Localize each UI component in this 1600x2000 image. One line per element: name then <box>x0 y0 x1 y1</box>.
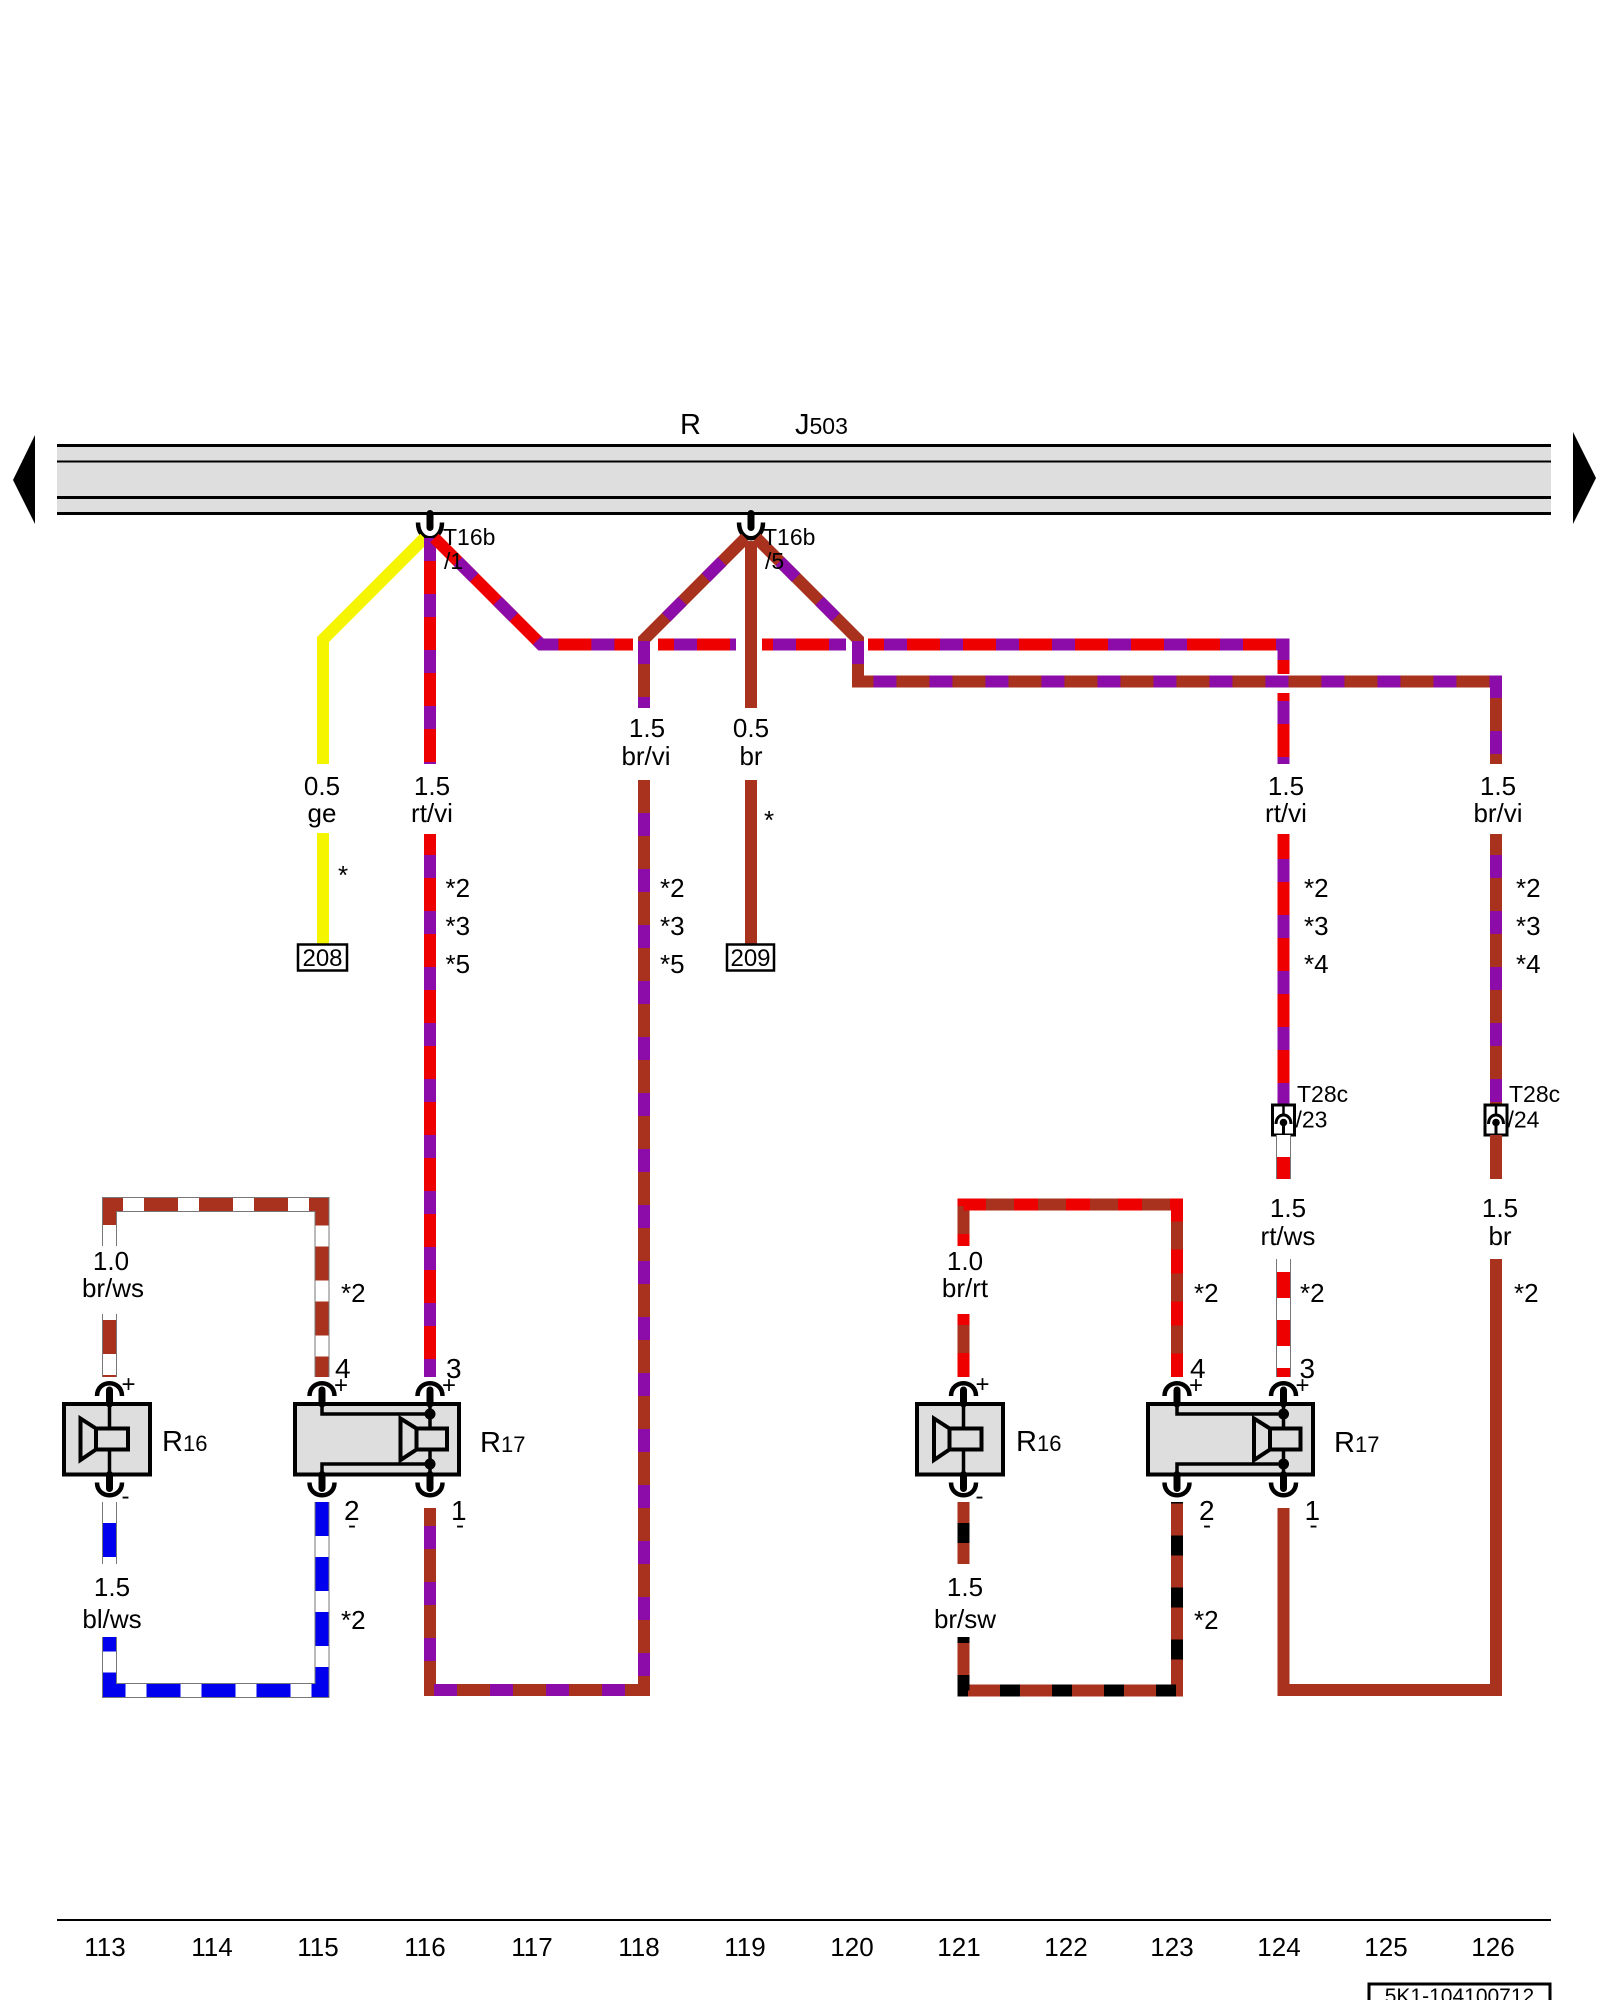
label T28c/24 <box>1508 1081 1561 1133</box>
speaker R17 left <box>295 1404 459 1475</box>
svg-text:124: 124 <box>1257 1932 1300 1962</box>
svg-text:121: 121 <box>937 1932 980 1962</box>
svg-text:/5: /5 <box>765 548 784 574</box>
svg-text:*2: *2 <box>341 1605 366 1635</box>
svg-text:+: + <box>334 1372 348 1399</box>
pin R16-right minus <box>951 1475 976 1496</box>
pin R17-left 1 <box>418 1475 443 1496</box>
part number box 5K1-104100712 <box>1369 1984 1550 2000</box>
svg-text:+: + <box>975 1371 989 1398</box>
label 0.5 ge <box>304 771 340 828</box>
svg-text:*4: *4 <box>1304 949 1329 979</box>
svg-text:1.5: 1.5 <box>1480 771 1516 801</box>
svg-text:rt/vi: rt/vi <box>411 798 453 828</box>
pin R16-left plus <box>97 1383 122 1404</box>
svg-text:*2: *2 <box>341 1278 366 1308</box>
wire rt/vi 1.5 T16b/1 to R17 pin3 (left) <box>424 538 436 1377</box>
svg-text:+: + <box>1295 1372 1309 1399</box>
label 1.5 br/vi (middle) <box>621 713 670 771</box>
wire br/rt 1.0 R16 plus to R17 pin4 (right) <box>964 1205 1178 1378</box>
svg-text:*: * <box>338 860 348 890</box>
svg-text:T16b: T16b <box>763 524 815 550</box>
svg-text:-: - <box>122 1483 130 1510</box>
label 1.0 br/rt <box>942 1246 989 1303</box>
svg-text:1.5: 1.5 <box>414 771 450 801</box>
svg-text:br/sw: br/sw <box>934 1604 996 1634</box>
svg-text:1.5: 1.5 <box>1270 1193 1306 1223</box>
svg-text:5K1-104100712: 5K1-104100712 <box>1385 1985 1534 2000</box>
connector T28c/24 <box>1485 1105 1507 1135</box>
svg-text:*5: *5 <box>660 949 685 979</box>
svg-text:T28c: T28c <box>1297 1081 1348 1107</box>
svg-text:1.5: 1.5 <box>94 1572 130 1602</box>
svg-text:113: 113 <box>84 1932 125 1962</box>
svg-text:114: 114 <box>191 1932 232 1962</box>
svg-text:*4: *4 <box>1516 949 1541 979</box>
svg-text:123: 123 <box>1150 1932 1193 1962</box>
bus bar J503 <box>57 444 1551 515</box>
svg-text:115: 115 <box>297 1932 338 1962</box>
svg-text:-: - <box>1310 1512 1318 1539</box>
svg-text:/23: /23 <box>1296 1107 1328 1133</box>
label T16b/5 <box>763 524 815 574</box>
svg-text:1.5: 1.5 <box>1482 1193 1518 1223</box>
wire ge 0.5 yellow T16b/1 to node 208 <box>323 538 425 945</box>
svg-text:br/vi: br/vi <box>1473 798 1522 828</box>
svg-text:br/ws: br/ws <box>82 1273 144 1303</box>
label 1.5 br/sw <box>934 1572 996 1634</box>
wire br/vi 1.5 T16b/5 left diagonal down to bottom loop to R17 pin1 (left) <box>430 538 746 1690</box>
svg-text:0.5: 0.5 <box>733 713 769 743</box>
svg-text:208: 208 <box>302 945 342 972</box>
svg-text:bl/ws: bl/ws <box>82 1604 141 1634</box>
pin R17-right 4 <box>1165 1383 1190 1404</box>
svg-text:T28c: T28c <box>1509 1081 1560 1107</box>
label T28c/23 <box>1296 1081 1349 1133</box>
bottom grid numbers <box>84 1932 1514 1962</box>
svg-text:-: - <box>348 1512 356 1539</box>
svg-text:1.0: 1.0 <box>947 1246 983 1276</box>
svg-text:rt/vi: rt/vi <box>1265 798 1307 828</box>
svg-text:/24: /24 <box>1508 1107 1540 1133</box>
svg-text:+: + <box>121 1371 135 1398</box>
pin R17-left 4 <box>310 1383 335 1404</box>
svg-text:*2: *2 <box>1300 1278 1325 1308</box>
svg-text:T16b: T16b <box>443 524 495 550</box>
label 0.5 br <box>733 713 769 771</box>
svg-text:117: 117 <box>511 1932 552 1962</box>
speaker R17 right <box>1148 1404 1313 1475</box>
svg-text:*: * <box>764 805 774 835</box>
svg-text:1.0: 1.0 <box>93 1246 129 1276</box>
svg-text:R17: R17 <box>480 1427 525 1459</box>
pin R17-right 3 <box>1271 1383 1296 1404</box>
svg-text:122: 122 <box>1044 1932 1087 1962</box>
svg-text:ge: ge <box>308 798 337 828</box>
svg-text:br: br <box>1488 1221 1511 1251</box>
connector T16b/5 <box>739 514 763 539</box>
svg-text:209: 209 <box>730 945 770 972</box>
node 209 <box>727 945 774 973</box>
svg-text:*2: *2 <box>446 873 471 903</box>
wire br/sw 1.5 R16 minus, bottom loop to R17 pin2 (right) <box>964 1502 1178 1691</box>
svg-text:1.5: 1.5 <box>947 1572 983 1602</box>
svg-text:119: 119 <box>724 1932 765 1962</box>
pin R17-right 2 <box>1165 1475 1190 1496</box>
svg-text:-: - <box>976 1483 984 1510</box>
svg-text:*3: *3 <box>446 911 471 941</box>
wire br 0.5 T16b/5 to node 209 <box>745 541 757 945</box>
svg-text:126: 126 <box>1471 1932 1514 1962</box>
svg-text:*2: *2 <box>1514 1278 1539 1308</box>
label 1.5 bl/ws <box>82 1572 141 1634</box>
svg-text:118: 118 <box>618 1932 659 1962</box>
svg-text:br/rt: br/rt <box>942 1273 989 1303</box>
svg-text:+: + <box>442 1372 456 1399</box>
label 1.5 br (right) <box>1482 1193 1518 1251</box>
svg-text:J503: J503 <box>795 409 848 441</box>
label *2 *3 *4 (rt/vi right) <box>1304 873 1329 979</box>
pin R16-right plus <box>951 1383 976 1404</box>
label 1.5 rt/vi (right) <box>1265 771 1307 828</box>
pin R17-left 3 <box>418 1383 443 1404</box>
wire br/ws 1.0 R16 plus to R17 pin4 (left) <box>110 1205 323 1378</box>
svg-text:*2: *2 <box>660 873 685 903</box>
svg-text:-: - <box>456 1512 464 1539</box>
svg-text:120: 120 <box>830 1932 873 1962</box>
svg-text:*3: *3 <box>660 911 685 941</box>
svg-text:1.5: 1.5 <box>1268 771 1304 801</box>
svg-text:*2: *2 <box>1194 1278 1219 1308</box>
svg-text:rt/ws: rt/ws <box>1261 1221 1316 1251</box>
wire rt/ws 1.5 T28c/23 to R17 pin3 (right) <box>1276 1135 1291 1377</box>
wire bl/ws 1.5 R16 minus, bottom loop to R17 pin2 (left) <box>110 1502 323 1691</box>
svg-text:*2: *2 <box>1516 873 1541 903</box>
svg-text:R16: R16 <box>162 1426 207 1458</box>
svg-text:*3: *3 <box>1516 911 1541 941</box>
label 1.0 br/ws <box>82 1246 144 1303</box>
pin R17-left 2 <box>310 1475 335 1496</box>
connector T28c/23 <box>1273 1105 1295 1135</box>
wire br 1.5 T28c/24 down, bottom loop to R17 pin1 (right) <box>1284 1135 1497 1690</box>
label 1.5 rt/ws <box>1261 1193 1316 1251</box>
speaker R16 right <box>917 1404 1003 1475</box>
svg-text:125: 125 <box>1364 1932 1407 1962</box>
label *2 *3 *5 (rt/vi left) <box>446 873 471 979</box>
svg-text:br/vi: br/vi <box>621 741 670 771</box>
svg-text:-: - <box>1203 1512 1211 1539</box>
svg-text:*2: *2 <box>1304 873 1329 903</box>
pin R17-right 1 <box>1271 1475 1296 1496</box>
svg-text:+: + <box>1189 1372 1203 1399</box>
wire br/vi 1.5 T16b/5 right diagonal, horizontal run to T28c/24 <box>757 538 1497 1105</box>
label 1.5 rt/vi (left) <box>411 771 453 828</box>
label *2 *3 *5 (br/vi middle) <box>660 873 685 979</box>
svg-text:R16: R16 <box>1016 1426 1061 1458</box>
bus arrow left <box>13 435 35 524</box>
label *2 *3 *4 (br/vi right) <box>1516 873 1541 979</box>
bus arrow right <box>1573 432 1596 524</box>
label T16b/1 <box>443 524 495 574</box>
bottom grid line <box>57 1919 1551 1921</box>
label 1.5 br/vi (right) <box>1473 771 1522 828</box>
speaker R16 left <box>64 1404 150 1475</box>
pin R16-left minus <box>97 1475 122 1496</box>
wire rt/vi 1.5 T16b/1 diagonal and horizontal run to T28c/23 <box>435 538 1284 1105</box>
node 208 <box>298 945 347 973</box>
svg-text:*5: *5 <box>446 949 471 979</box>
connector T16b/1 <box>418 514 442 539</box>
svg-text:0.5: 0.5 <box>304 771 340 801</box>
svg-text:*3: *3 <box>1304 911 1329 941</box>
svg-text:br: br <box>739 741 762 771</box>
svg-text:R17: R17 <box>1334 1427 1379 1459</box>
svg-text:*2: *2 <box>1194 1605 1219 1635</box>
svg-text:R: R <box>680 409 701 441</box>
svg-text:/1: /1 <box>444 548 463 574</box>
svg-text:116: 116 <box>404 1932 445 1962</box>
svg-text:1.5: 1.5 <box>629 713 665 743</box>
